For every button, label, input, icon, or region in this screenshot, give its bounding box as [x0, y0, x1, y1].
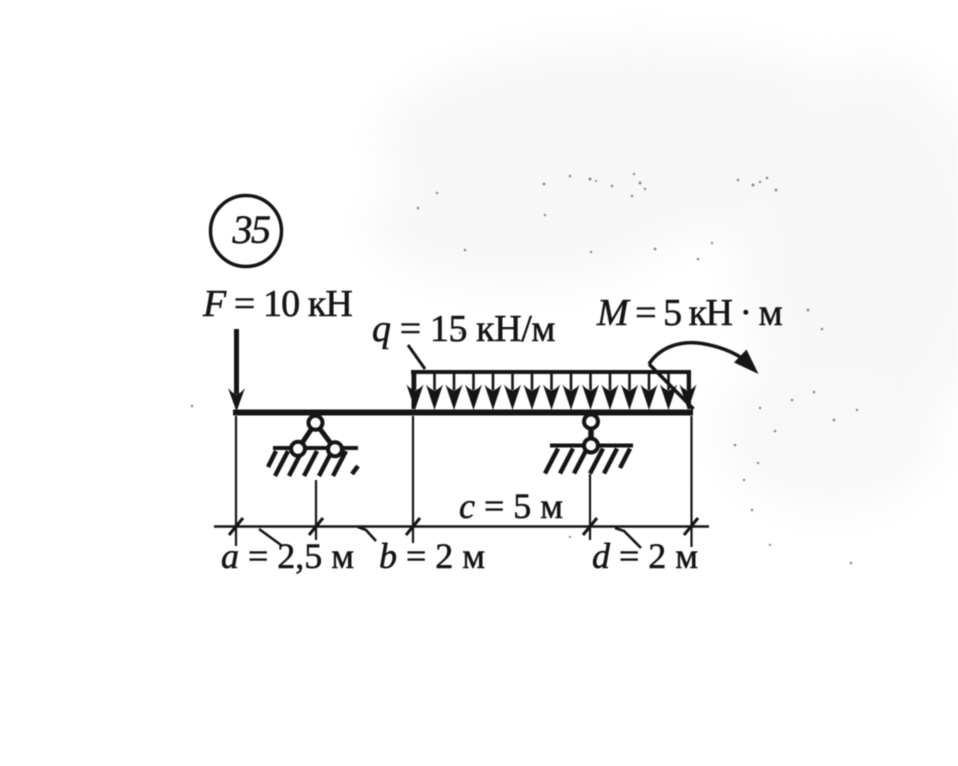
svg-text:35: 35 — [232, 207, 271, 252]
support A (pin on ground) — [268, 416, 358, 476]
support B (roller link on ground) — [545, 415, 633, 474]
hatching — [268, 451, 358, 476]
tick at support A — [309, 518, 323, 535]
force F arrow — [228, 329, 245, 412]
hinge circles — [309, 416, 323, 430]
ground line — [273, 446, 358, 450]
distributed load q — [411, 372, 691, 409]
triangle legs — [298, 423, 316, 449]
tick at beam left end — [229, 518, 243, 535]
tick at beam right end — [684, 518, 698, 535]
extension line at support A — [315, 480, 317, 540]
svg-text:a = 2,5 м: a = 2,5 м — [221, 536, 354, 576]
extension line at beam right end — [690, 416, 692, 547]
top line — [411, 370, 691, 374]
moment M curved arrow — [649, 343, 744, 409]
beam — [233, 410, 693, 416]
tick at support B — [583, 518, 597, 535]
extension line at load start — [412, 416, 414, 543]
tick at load start — [406, 518, 420, 535]
distributed load arrows — [407, 372, 697, 410]
leader stroke to label b — [358, 527, 376, 541]
right edge — [688, 372, 691, 409]
q leader line — [408, 345, 425, 369]
svg-text:c = 5 м: c = 5 м — [459, 486, 563, 526]
leader stroke to label d — [615, 528, 641, 548]
svg-text:F = 10 кН: F = 10 кН — [202, 283, 352, 325]
leader stroke in segment a — [259, 529, 281, 545]
scan noise specks — [191, 173, 859, 565]
svg-text:d = 2 м: d = 2 м — [592, 536, 698, 576]
extension line at support B — [589, 474, 591, 540]
svg-text:b = 2 м: b = 2 м — [379, 536, 485, 576]
extension line at beam left end — [235, 416, 237, 546]
svg-text:q = 15 кН/м: q = 15 кН/м — [372, 308, 555, 350]
svg-text:M = 5 кН · м: M = 5 кН · м — [596, 292, 783, 334]
left edge — [412, 372, 415, 409]
dimension line — [214, 525, 709, 528]
figure number circle 35 — [211, 196, 282, 267]
